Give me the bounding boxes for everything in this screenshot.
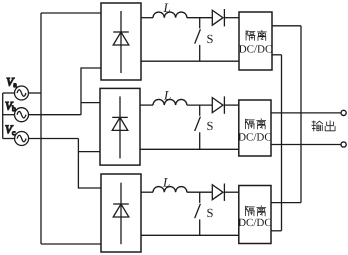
svg-text:Va: Va [6,76,17,89]
inductor L1 [153,12,187,18]
label geli 2 char li [257,119,266,129]
node output bus - x=281.5 [281,55,283,231]
label geli 2 char ge [245,119,254,129]
wire inductor to diode [187,191,212,193]
svg-text:L: L [163,88,171,103]
wire U3 out to inductor [141,191,153,193]
rectifier U1 box [101,3,141,80]
svg-text:Vc: Vc [5,124,16,137]
wire diode to DC/DC 3 [224,191,238,193]
wire left source return bus [2,93,4,139]
label geli 1 (isolated) char ge [246,31,255,41]
diode symbol inside U2 [112,96,128,158]
switch S2 [195,105,201,149]
node output bus + x=301 [300,26,302,203]
label geli 3 char ge [245,206,254,216]
rectifier U2 box [100,88,140,165]
wire bottom rail row 2 [140,148,239,150]
rectifier U3 box [101,174,141,252]
diode D1 [212,9,224,26]
wire DC/DC3 + output to bus [271,202,301,204]
inductor L3 [153,187,187,193]
terminal output + [341,110,346,115]
svg-text:Vb: Vb [5,100,16,113]
svg-text:S: S [207,32,214,46]
DC/DC converter 2 box [239,100,271,156]
terminal output - [341,142,346,147]
node bus left phase bus x=41 [40,13,42,244]
source Vb [3,108,81,122]
wire bus top to rectifier U1 top input [41,12,101,14]
wire bottom rail row 3 [141,234,239,236]
wire bottom rail row 1 [141,60,239,62]
wire inductor to diode [187,104,212,106]
svg-text:L: L [163,0,171,15]
DC/DC converter 3 box [239,186,271,244]
svg-text:DC/DC: DC/DC [239,44,273,56]
wire output line 1 [271,112,341,114]
label shuchu (output) char shu [312,121,323,131]
diode D3 [212,184,224,201]
switch S1 [195,18,201,62]
svg-text:DC/DC: DC/DC [238,132,272,144]
source Va [3,86,41,100]
wire U2 out to inductor [140,104,153,106]
diode symbol inside U3 [113,183,129,245]
wire branch to rectifier U2 top input [81,102,100,104]
switch S3 [195,192,201,235]
wire inductor to diode [187,17,212,19]
svg-text:S: S [207,206,214,220]
label shuchu char chu [325,121,335,131]
wire U1 out to inductor [141,17,153,19]
svg-text:S: S [207,119,214,133]
wire bus bottom to rectifier U3 bottom input [41,243,101,245]
wire DC/DC1 + output to bus [272,25,301,27]
label geli 1 char li [257,30,266,40]
wire Vc node dropper x=78.4 [78,139,101,189]
wire Vb node riser x=81 [81,68,101,115]
wire diode to DC/DC 1 [224,17,239,19]
svg-text:L: L [162,175,170,190]
svg-text:DC/DC: DC/DC [238,217,272,229]
wire output line 2 [271,144,341,146]
diode D2 [212,96,224,113]
DC/DC converter 1 box [239,12,272,70]
source Vc [3,132,79,146]
wire branch to rectifier U2 bottom input [78,151,100,153]
inductor L2 [153,99,187,105]
wire DC/DC1 - output to bus [272,54,282,56]
diode symbol inside U1 [113,11,129,73]
wire diode to DC/DC 2 [224,104,238,106]
label geli 3 char li [257,206,266,216]
wire DC/DC3 - output to bus [271,230,282,232]
